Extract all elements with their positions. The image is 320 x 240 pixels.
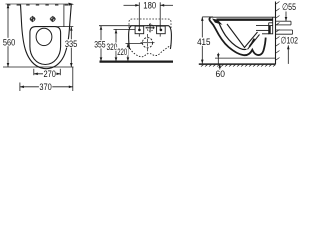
- svg-text:180: 180: [143, 0, 156, 10]
- svg-text:∅102: ∅102: [280, 35, 298, 45]
- svg-text:355: 355: [94, 40, 105, 50]
- svg-text:320: 320: [107, 42, 118, 52]
- svg-text:560: 560: [3, 37, 15, 47]
- svg-text:60: 60: [216, 69, 225, 79]
- svg-text:270: 270: [44, 69, 56, 79]
- svg-text:370: 370: [39, 82, 51, 92]
- svg-text:335: 335: [65, 39, 77, 49]
- svg-text:∅55: ∅55: [282, 2, 296, 12]
- svg-text:415: 415: [197, 37, 210, 47]
- svg-text:220: 220: [117, 47, 127, 57]
